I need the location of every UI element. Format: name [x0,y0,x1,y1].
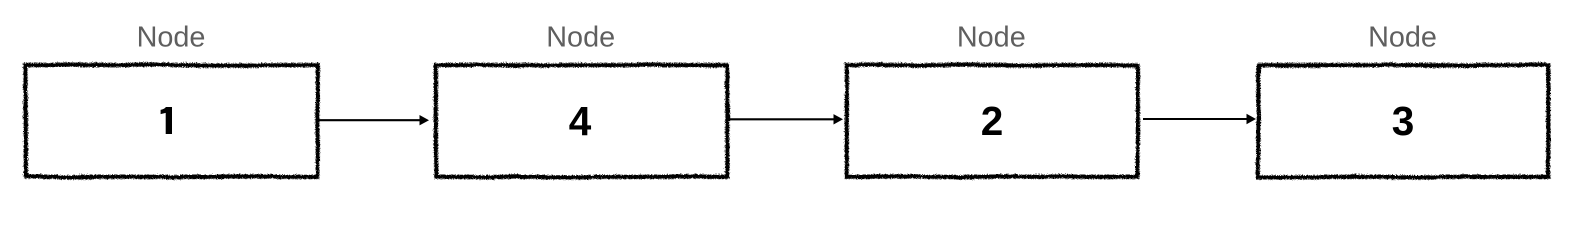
node 4 box [1258,64,1548,176]
svg-text:Node: Node [1368,21,1437,53]
node 3 box [846,64,1137,176]
svg-text:3: 3 [1392,98,1415,144]
wire arrow 1 [317,115,429,125]
node 1 box [25,64,317,176]
svg-text:Node: Node [957,21,1026,53]
node 2 box [435,64,727,176]
svg-text:Node: Node [546,21,615,53]
node 1 value "1" [161,107,172,134]
wire arrow 3 [1143,114,1256,124]
svg-text:Node: Node [137,21,206,53]
svg-text:4: 4 [569,98,592,144]
svg-text:2: 2 [981,98,1004,144]
wire arrow 2 [727,114,844,124]
